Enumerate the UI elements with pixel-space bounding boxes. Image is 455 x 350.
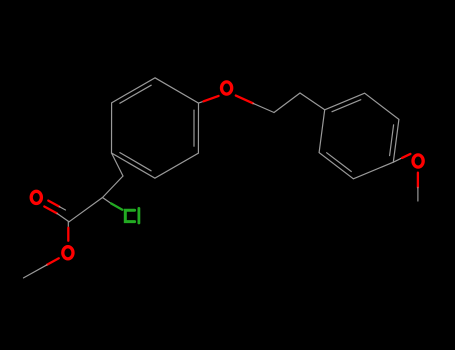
methoxy O atom label [413, 155, 423, 167]
bond CH2a to CH2b [274, 93, 300, 113]
ether O atom label [222, 82, 232, 94]
bond C1 to ester O [67, 222, 69, 241]
bond C2 to Cl [103, 198, 123, 210]
ester methyl bond [24, 258, 59, 278]
carbonyl C1=O double bond [44, 201, 69, 222]
bond left ring to benzylic CH2 (C3) [112, 153, 124, 176]
bond right ring to methoxy O [393, 154, 410, 162]
bond ether O to CH2a [236, 96, 274, 113]
left benzene ring [112, 78, 199, 178]
Cl atom label [125, 208, 139, 223]
carbonyl O atom label [31, 191, 41, 203]
right benzene ring [319, 93, 399, 179]
methoxy methyl bond [417, 173, 419, 201]
bond C3 to alpha carbon C2 [103, 176, 124, 198]
bond aryl C2v to ether O [199, 96, 219, 103]
bond C2 to carbonyl C1 [69, 198, 103, 222]
ester O atom label [63, 247, 73, 259]
bond CH2b to right ring [300, 93, 325, 110]
